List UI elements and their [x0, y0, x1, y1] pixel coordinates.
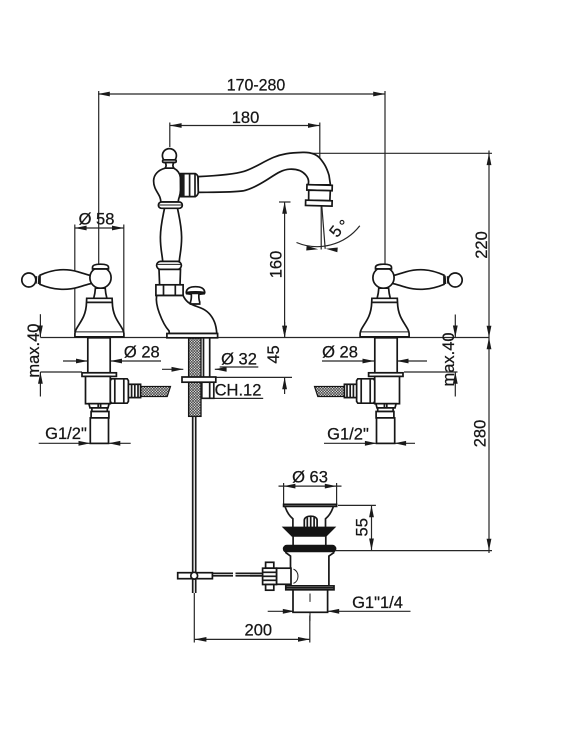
column vase [160, 208, 181, 261]
handle neck [94, 288, 107, 298]
label CH.12 [212, 382, 263, 400]
column neck [159, 269, 181, 284]
left handle [22, 264, 124, 337]
svg-text:55: 55 [354, 518, 372, 536]
dimension 5 degrees [297, 204, 360, 253]
outlet fitting [128, 384, 140, 397]
svg-text:280: 280 [472, 420, 490, 448]
svg-text:max.40: max.40 [25, 324, 43, 378]
rod cross pivot [178, 572, 213, 579]
drain bottom lip [286, 586, 334, 590]
lever arm [40, 270, 91, 290]
dimension max.40 left [25, 314, 82, 396]
svg-text:G1/2": G1/2" [45, 425, 87, 443]
CH.12 lock nut [202, 382, 214, 398]
spout onion knob [154, 168, 181, 202]
valve flange [82, 373, 116, 377]
dimension 280 [336, 338, 492, 554]
rod to drain lever [250, 573, 263, 575]
lever end ball [22, 273, 36, 287]
svg-text:Ø 63: Ø 63 [292, 469, 328, 487]
step ring chamfer [89, 404, 109, 408]
pop-up rod knob [186, 287, 205, 304]
shank flange nut D32 [182, 377, 216, 382]
svg-text:Ø 32: Ø 32 [221, 351, 257, 369]
braided hose [141, 387, 171, 397]
pop-up cap [304, 516, 317, 527]
spout collar [181, 174, 199, 197]
svg-text:max.40: max.40 [440, 332, 458, 386]
valve shank D28 [88, 338, 110, 373]
step ring narrow [92, 408, 107, 412]
dimension G1/2 left [39, 425, 131, 446]
dimension D28 right [322, 344, 427, 364]
right handle (mirror) [360, 264, 462, 337]
dimension 55 [338, 505, 376, 550]
dimension 200 [194, 593, 309, 643]
dimension D58 [75, 211, 124, 333]
drain seal trapezoid (black) [283, 527, 335, 536]
dimension D63 [279, 469, 342, 504]
svg-text:G1/2": G1/2" [327, 426, 369, 444]
right valve body (mirror) [315, 338, 404, 444]
svg-text:Ø 28: Ø 28 [322, 344, 358, 362]
left valve body under counter [82, 338, 171, 444]
svg-text:180: 180 [232, 109, 260, 127]
dimension G1-1/4 [268, 594, 411, 614]
drain neck [285, 506, 333, 527]
column ring upper [158, 202, 182, 208]
step ring collar [91, 412, 109, 418]
svg-text:45: 45 [265, 345, 283, 363]
dimension 180 [170, 109, 320, 184]
dimension 160 [268, 202, 291, 338]
threaded tail G1/2 [90, 418, 108, 444]
svg-text:G1"1/4: G1"1/4 [352, 594, 403, 612]
dimension G1/2 right [324, 426, 415, 446]
drain shoulder [285, 552, 334, 586]
counter line [40, 337, 489, 339]
dimension 170-280 [98, 77, 385, 267]
spout ball finial [162, 149, 176, 169]
drain knurled nut [263, 562, 277, 590]
svg-text:CH.12: CH.12 [215, 382, 262, 400]
dimension D32 [162, 351, 258, 372]
bell escutcheon [75, 298, 124, 337]
drain tail tube G1-1/4 [293, 590, 328, 624]
drain o-ring (black) [283, 545, 336, 552]
threaded shank (hatched) [189, 338, 201, 416]
svg-text:220: 220 [473, 231, 491, 259]
drain flange plate [284, 504, 337, 506]
spout tube [198, 152, 330, 192]
faucet body [156, 296, 216, 334]
pop-up rod [193, 416, 196, 593]
svg-text:Ø 28: Ø 28 [124, 344, 160, 362]
drain mid section [293, 536, 326, 545]
svg-text:Ø 58: Ø 58 [79, 211, 115, 229]
svg-text:200: 200 [245, 622, 273, 640]
base plinth [167, 334, 218, 338]
svg-text:170-280: 170-280 [227, 77, 286, 95]
ball joint [90, 267, 111, 288]
dimension 45 [216, 322, 292, 394]
pop-up rod tube beside shank [204, 338, 210, 377]
horizontal actuator rod [212, 573, 262, 575]
svg-text:160: 160 [268, 251, 286, 279]
outlet hex [110, 379, 128, 403]
dimension 220 [303, 151, 492, 338]
valve body [86, 376, 111, 403]
body hex nut CH [156, 285, 183, 296]
column ring lower [157, 261, 182, 269]
aerator [306, 185, 333, 206]
dimension D28 left [63, 344, 161, 364]
dimension max.40 right [404, 315, 458, 397]
drain lever boss cylinder [277, 568, 299, 584]
